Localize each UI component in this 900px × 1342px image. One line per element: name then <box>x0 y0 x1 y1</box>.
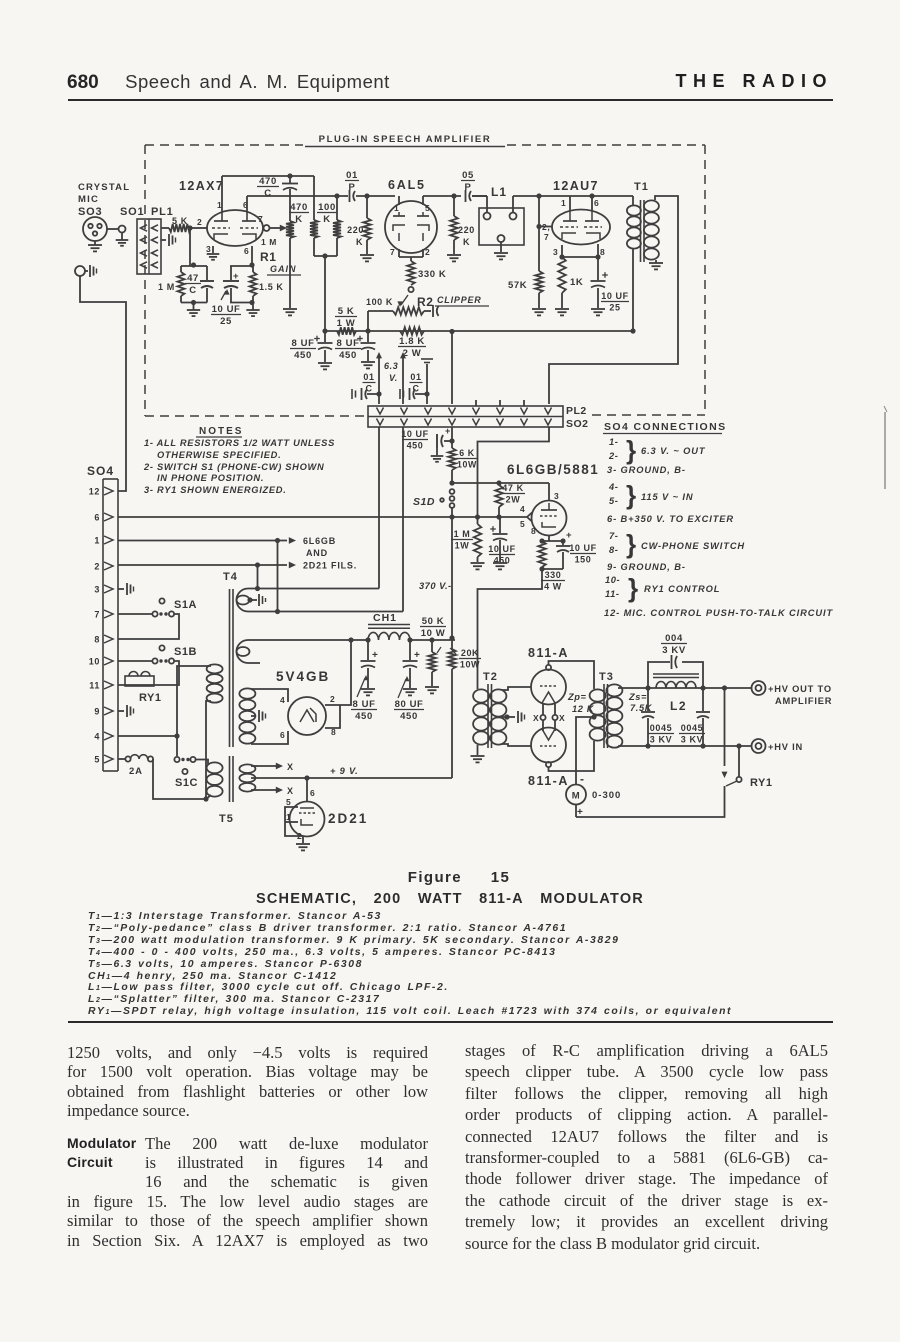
resistor 1M/1W grid <box>477 517 479 524</box>
wire 6L6 cathode <box>548 536 550 542</box>
svg-text:PL1: PL1 <box>151 206 174 218</box>
resistor 1K cathode <box>558 257 566 293</box>
bottom rail grid net <box>181 302 207 304</box>
wire T5 secondary X out top <box>251 765 258 767</box>
wire rail to strip <box>451 331 453 404</box>
rail2 wire <box>247 195 345 197</box>
svg-text:0045: 0045 <box>650 723 672 733</box>
svg-text:25: 25 <box>609 303 620 313</box>
svg-text:K: K <box>323 214 330 225</box>
strip pin 1 arrows <box>377 408 384 415</box>
stray mark <box>884 412 886 489</box>
svg-text:2W: 2W <box>506 495 521 505</box>
wire 5K to 12AX7 pin2 <box>191 227 207 229</box>
wire 811 upper plate to T3 <box>549 661 595 689</box>
svg-text:L2: L2 <box>670 699 687 713</box>
svg-text:CH1: CH1 <box>373 612 397 624</box>
ground (10uF/25) <box>591 308 605 310</box>
tube 6L6 <box>532 501 567 536</box>
svg-text:330: 330 <box>545 570 562 580</box>
svg-text:80 UF: 80 UF <box>395 699 424 710</box>
svg-text:10 UF: 10 UF <box>212 304 241 315</box>
wire 5V4GB cathode out <box>325 640 351 705</box>
svg-text:01: 01 <box>363 372 374 382</box>
resistor 6K/10W <box>448 448 456 470</box>
wire pin4 115V <box>118 735 177 737</box>
T4 heater winding A <box>237 589 404 612</box>
wire pin10 <box>118 660 153 662</box>
svg-text:-: - <box>580 772 585 786</box>
wire pin7 <box>118 613 153 615</box>
svg-text:6: 6 <box>594 198 599 208</box>
wire 6AL5 cathodes join <box>398 249 400 257</box>
svg-text:X: X <box>287 762 294 772</box>
T4 primary winding <box>207 664 223 673</box>
svg-text:1 M: 1 M <box>158 282 175 292</box>
ground (80uF filter) <box>403 688 417 690</box>
svg-text:10W: 10W <box>460 660 480 670</box>
svg-text:150: 150 <box>575 555 592 565</box>
svg-text:9: 9 <box>94 707 100 717</box>
svg-text:X: X <box>287 786 294 796</box>
svg-text:RY1: RY1 <box>139 692 162 704</box>
svg-text:SO3: SO3 <box>78 206 102 218</box>
wire T5 secondary X out bottom <box>251 789 258 791</box>
ground (T1 secondary) <box>655 260 657 263</box>
resistor 20K/10W <box>451 638 453 649</box>
svg-text:3 KV: 3 KV <box>650 735 672 745</box>
svg-text:11-: 11- <box>605 589 620 599</box>
svg-text:450: 450 <box>355 711 373 722</box>
svg-text:01: 01 <box>346 170 358 181</box>
svg-text:2-: 2- <box>608 451 618 461</box>
svg-text:L1: L1 <box>491 185 507 199</box>
svg-text:8: 8 <box>94 635 100 645</box>
wire T1 primary top <box>632 196 634 205</box>
wire cathode bottom <box>541 567 543 569</box>
wire pin6 to rail2 <box>246 196 248 212</box>
svg-text:01: 01 <box>410 372 421 382</box>
capacitor 10uF/450 grid <box>499 517 501 533</box>
svg-text:10 UF: 10 UF <box>401 429 429 439</box>
ground (8uF first) <box>318 362 332 364</box>
svg-text:SO2: SO2 <box>566 418 589 430</box>
svg-text:T1: T1 <box>634 181 649 193</box>
wire PL1 to 5K <box>161 227 169 229</box>
wire 20K down to +9V line <box>451 669 453 778</box>
svg-text:4 W: 4 W <box>544 582 562 592</box>
svg-text:8-: 8- <box>609 545 618 555</box>
wire strip to 10uF/6K branch <box>451 427 453 448</box>
filament riser 2 <box>400 352 406 358</box>
ground (10uF grid) <box>493 562 507 564</box>
bottom rail cathode <box>230 302 253 304</box>
svg-text:6: 6 <box>310 788 315 798</box>
switch S1D <box>451 470 453 483</box>
wire 6AL5 pin5 to .05 cap <box>422 196 424 205</box>
svg-text:450: 450 <box>339 350 357 361</box>
svg-text:M: M <box>572 791 581 802</box>
small gnd above riser 3 <box>421 358 433 360</box>
svg-text:450: 450 <box>400 711 418 722</box>
chassis cap on PL1 row2 <box>161 239 166 241</box>
wire 6AL5 pin1 <box>398 196 400 205</box>
strip pin 8 arrows <box>545 408 552 415</box>
wire 12AU7 cathodes <box>561 245 563 257</box>
ground (220K) <box>360 254 374 256</box>
wire fil drop B <box>277 541 279 612</box>
svg-text:6: 6 <box>94 513 100 523</box>
wire mic to SO1 <box>107 228 119 230</box>
svg-text:K: K <box>356 237 363 247</box>
svg-text:CRYSTAL: CRYSTAL <box>78 182 130 193</box>
relay RY1 coil <box>125 676 154 686</box>
page header <box>67 71 833 95</box>
svg-text:220: 220 <box>458 225 475 235</box>
svg-text:47 K: 47 K <box>502 483 523 493</box>
svg-text:20K: 20K <box>461 648 479 658</box>
ground (L1) <box>500 242 502 252</box>
svg-text:9- GROUND, B-: 9- GROUND, B- <box>607 562 686 572</box>
svg-text:1: 1 <box>561 198 566 208</box>
svg-text:K: K <box>295 214 302 225</box>
svg-text:2: 2 <box>197 217 202 227</box>
strip pin 5 arrows <box>473 408 480 415</box>
switch S1B <box>152 658 157 663</box>
svg-text:C: C <box>189 285 196 296</box>
svg-text:T5: T5 <box>219 813 234 825</box>
svg-text:2D21 FILS.: 2D21 FILS. <box>303 561 357 571</box>
svg-text:+: + <box>233 271 239 282</box>
resistor 5K grid stopper <box>169 224 191 232</box>
svg-text:470: 470 <box>259 176 277 187</box>
wire 6L6 grid stubs <box>527 513 532 518</box>
svg-text:7: 7 <box>94 610 100 620</box>
svg-text:SO4: SO4 <box>87 464 114 478</box>
svg-text:100: 100 <box>318 202 336 213</box>
svg-text:3: 3 <box>554 491 559 501</box>
svg-text:5: 5 <box>286 797 291 807</box>
resistor 57K grid leak <box>538 227 540 272</box>
svg-text:12- MIC. CONTROL PUSH-TO-TALK: 12- MIC. CONTROL PUSH-TO-TALK CIRCUIT <box>604 608 833 618</box>
ground (SO1) <box>116 239 129 241</box>
wire S1A to pin8 <box>118 614 179 639</box>
svg-text:1K: 1K <box>570 277 583 288</box>
wire T3 secondary bottom HV in line <box>618 745 752 747</box>
svg-text:X: X <box>533 713 539 723</box>
potentiometer R1 1M gain <box>264 225 270 231</box>
wire 811 lower plate to T3 <box>549 741 595 771</box>
svg-text:3- GROUND, B-: 3- GROUND, B- <box>607 465 686 475</box>
wire winding C to 5V4GB plates <box>251 689 288 702</box>
wire pin4 to S1C <box>176 736 178 756</box>
wire into L1 <box>486 196 488 213</box>
svg-text:2- SWITCH S1 (PHONE-CW) SHOWN: 2- SWITCH S1 (PHONE-CW) SHOWN <box>143 462 324 472</box>
svg-text:}: } <box>626 435 637 465</box>
svg-text:1-: 1- <box>609 437 618 447</box>
terminal HV out <box>752 681 766 695</box>
rule under component list <box>68 1021 833 1023</box>
svg-text:5 K: 5 K <box>338 306 355 317</box>
svg-text:7: 7 <box>390 247 395 257</box>
switch S1C <box>174 757 179 762</box>
resistor 330/4W cathode <box>538 541 546 567</box>
svg-text:450: 450 <box>407 441 424 451</box>
wire 2D21 grid/cath left <box>285 807 303 836</box>
relay RY1 contacts <box>724 688 726 766</box>
svg-text:S1C: S1C <box>175 777 198 789</box>
wire T3 meter tap <box>576 717 594 784</box>
svg-text:AND: AND <box>306 548 328 558</box>
wire 2D21 pin2 ground <box>302 836 304 843</box>
chassis cap pin9 <box>118 710 124 712</box>
svg-text:5V4GB: 5V4GB <box>276 669 330 684</box>
svg-text:+: + <box>577 807 583 818</box>
resistor 1.5K cathode <box>252 266 254 272</box>
header rule <box>68 99 833 101</box>
svg-text:PL2: PL2 <box>566 405 587 417</box>
svg-text:3: 3 <box>553 247 558 257</box>
wire SO2 down to plate line <box>478 427 550 517</box>
body text left column <box>67 1043 428 1250</box>
svg-text:6- B+350 V. TO EXCITER: 6- B+350 V. TO EXCITER <box>607 514 734 524</box>
svg-text:V.: V. <box>389 373 398 383</box>
wire cathode to T2 <box>478 569 543 689</box>
svg-text:6.3: 6.3 <box>384 361 398 371</box>
svg-text:57K: 57K <box>508 280 527 291</box>
svg-text:SO4 CONNECTIONS: SO4 CONNECTIONS <box>604 421 727 433</box>
wire return up to T4 primary <box>206 701 210 799</box>
svg-text:25: 25 <box>220 316 232 327</box>
svg-text:370 V.-: 370 V.- <box>419 581 452 591</box>
wire S1B to pin11 <box>118 661 179 685</box>
svg-text:8: 8 <box>531 526 536 536</box>
terminal HV in <box>752 739 766 753</box>
svg-text:8 UF: 8 UF <box>353 699 376 710</box>
ground (R1) <box>283 308 297 310</box>
svg-text:0-300: 0-300 <box>592 790 621 801</box>
svg-text:7: 7 <box>544 232 549 242</box>
chassis cap T4 winding C <box>251 715 256 717</box>
svg-text:8 UF: 8 UF <box>337 338 360 349</box>
capacitor .0045/3KV right <box>702 688 704 711</box>
SO1 contact <box>119 226 126 233</box>
svg-text:3 KV: 3 KV <box>681 735 703 745</box>
switch S1A <box>152 611 157 616</box>
figure caption <box>18 869 900 886</box>
wire T5 center tap +9V line <box>251 777 452 779</box>
svg-text:X: X <box>559 713 565 723</box>
svg-text:05: 05 <box>462 170 474 181</box>
svg-text:47: 47 <box>187 273 199 284</box>
B+ rail after choke <box>410 639 455 641</box>
svg-text:3: 3 <box>206 244 211 254</box>
ground (grid net) <box>193 303 195 311</box>
svg-text:4-: 4- <box>608 482 618 492</box>
PL1 pin arrows <box>141 237 148 243</box>
svg-text:S1A: S1A <box>174 599 197 611</box>
T4 HV winding C <box>239 688 255 698</box>
wire SO4 pin2 6.3V <box>118 564 287 566</box>
svg-text:10W: 10W <box>457 459 477 469</box>
svg-text:12AX7: 12AX7 <box>179 179 224 193</box>
wire SO4 pin1 6.3V <box>118 540 287 542</box>
ground (10uF strip) <box>436 448 438 455</box>
svg-text:NOTES: NOTES <box>199 426 243 437</box>
svg-text:5: 5 <box>520 519 525 529</box>
svg-text:6L6GB/5881: 6L6GB/5881 <box>507 462 599 477</box>
svg-text:811-A: 811-A <box>528 774 569 788</box>
svg-text:5: 5 <box>425 203 430 213</box>
svg-text:4: 4 <box>520 504 525 514</box>
svg-text:10 UF: 10 UF <box>488 544 516 554</box>
PL1 pin arrows <box>141 225 148 231</box>
wire grid to RC net <box>189 228 191 266</box>
svg-text:Zs=: Zs= <box>628 692 647 702</box>
svg-text:2: 2 <box>330 694 335 704</box>
svg-text:2: 2 <box>425 247 430 257</box>
T4 winding B 5V <box>237 640 369 663</box>
strip pin 3 arrows <box>425 408 432 415</box>
svg-text:+HV IN: +HV IN <box>768 742 803 752</box>
svg-text:12AU7: 12AU7 <box>553 179 599 193</box>
svg-text:8 UF: 8 UF <box>292 338 315 349</box>
ground (57K) <box>532 308 546 310</box>
filament riser 1 <box>376 352 382 358</box>
ground (8uF filter) <box>361 688 375 690</box>
svg-text:6 K: 6 K <box>459 448 475 458</box>
PL1 pin arrows <box>141 250 148 256</box>
svg-text:50 K: 50 K <box>422 616 444 627</box>
svg-text:6AL5: 6AL5 <box>388 178 426 192</box>
svg-text:1: 1 <box>94 536 100 546</box>
body text right column <box>465 1040 828 1254</box>
wire strip to T4 heater B <box>402 427 404 612</box>
resistor 47K/2W <box>498 483 500 485</box>
B decoupling rail <box>325 330 633 332</box>
svg-text:10 W: 10 W <box>421 628 446 639</box>
strip pin 4 arrows <box>449 408 456 415</box>
ground (mic) <box>88 244 102 246</box>
svg-text:6L6GB: 6L6GB <box>303 536 336 546</box>
svg-text:10 UF: 10 UF <box>601 291 629 301</box>
wire fuse around to T4/T5 return <box>153 759 206 799</box>
wire fil drop A <box>257 565 259 589</box>
ground (T2 primary) <box>477 745 479 755</box>
wire T3 secondary top HV out line <box>618 687 752 689</box>
svg-text:7: 7 <box>258 214 263 224</box>
ground (220K second) <box>447 254 461 256</box>
svg-text:S1B: S1B <box>174 646 197 658</box>
svg-text:3: 3 <box>94 585 100 595</box>
svg-text:450: 450 <box>294 350 312 361</box>
svg-text:T2: T2 <box>483 671 498 683</box>
svg-text:MIC: MIC <box>78 194 99 205</box>
svg-text:1: 1 <box>286 812 291 822</box>
svg-text:5: 5 <box>94 755 100 765</box>
svg-text:6: 6 <box>244 246 249 256</box>
svg-text:6: 6 <box>280 730 285 740</box>
svg-text:+HV OUT TO: +HV OUT TO <box>768 684 832 694</box>
ground (2D21) <box>296 843 310 845</box>
svg-text:}: } <box>626 529 637 559</box>
svg-text:IN PHONE POSITION.: IN PHONE POSITION. <box>157 473 264 483</box>
top rail <box>222 175 314 177</box>
svg-text:11: 11 <box>89 681 100 691</box>
capacitor 10uF/25 cathode <box>230 265 253 267</box>
wire join 470K/100K bottoms <box>314 255 337 257</box>
wire T5 primary bottom <box>206 795 211 799</box>
wire jack to SO4 pin 12 <box>80 276 126 491</box>
ground (50K) <box>425 686 439 688</box>
svg-text:OTHERWISE SPECIFIED.: OTHERWISE SPECIFIED. <box>157 450 281 460</box>
plug-in speech amplifier enclosure (dashed box) <box>145 144 303 146</box>
meter M 0-300 <box>566 785 586 805</box>
svg-text:115 V ~ IN: 115 V ~ IN <box>641 492 694 502</box>
svg-text:GAIN: GAIN <box>270 264 297 274</box>
ground (cathode net) <box>252 303 254 311</box>
svg-text:004: 004 <box>665 633 683 644</box>
svg-text:RY1: RY1 <box>750 777 773 789</box>
svg-text:C: C <box>365 384 372 394</box>
capacitor .0045/3KV left <box>647 688 649 711</box>
filter coil L2 <box>653 673 699 675</box>
capacitor 10uF/25 second <box>597 257 599 280</box>
wire T2 sec bottom to 811 grid <box>502 744 531 746</box>
wire T2 sec top to 811 grid <box>502 687 531 690</box>
svg-text:RY1 CONTROL: RY1 CONTROL <box>644 584 720 594</box>
capacitor clipper out <box>432 305 434 317</box>
svg-text:811-A: 811-A <box>528 646 569 660</box>
svg-text:+ 9 V.: + 9 V. <box>330 766 359 776</box>
plate line 6L6 <box>452 482 549 484</box>
svg-text:3 KV: 3 KV <box>662 645 686 656</box>
svg-text:100 K: 100 K <box>366 297 393 307</box>
wire T1 primary bottom to B rail <box>632 249 634 331</box>
svg-text:+: + <box>414 650 420 661</box>
svg-text:S1D: S1D <box>413 496 435 508</box>
svg-text:}: } <box>628 573 639 603</box>
svg-text:C: C <box>264 188 271 199</box>
ground (8uF second) <box>361 361 375 363</box>
ground (12AX7 pin3) <box>212 246 214 253</box>
tube 811-A upper <box>531 670 566 705</box>
svg-text:AMPLIFIER: AMPLIFIER <box>775 696 832 706</box>
svg-text:8: 8 <box>600 247 605 257</box>
wire 12AU7 plates to T1 <box>569 196 571 210</box>
strip pin 7 arrows <box>521 408 528 415</box>
fuse 2A <box>118 758 126 760</box>
wire pin8 to cathode net <box>251 246 253 266</box>
wire L1 out to 12AU7 <box>512 196 514 213</box>
svg-text:5 K: 5 K <box>172 216 188 226</box>
svg-text:470: 470 <box>290 202 308 213</box>
svg-text:4: 4 <box>94 732 100 742</box>
svg-text:1.5 K: 1.5 K <box>259 282 284 292</box>
connector strip PL2/SO2 <box>368 406 563 427</box>
wire S1C to T5 <box>196 760 209 765</box>
svg-text:T3: T3 <box>599 671 614 683</box>
svg-text:K: K <box>463 237 470 247</box>
wire SO4 pin6 B+350 line <box>118 516 527 518</box>
chassis cap pin3 <box>118 588 124 590</box>
svg-text:}: } <box>626 480 637 510</box>
svg-text:4: 4 <box>280 695 285 705</box>
PL1 pin arrows <box>141 262 148 268</box>
wire strip to T4 heater A <box>378 427 380 589</box>
svg-text:3- RY1 SHOWN ENERGIZED.: 3- RY1 SHOWN ENERGIZED. <box>144 485 287 495</box>
svg-text:10-: 10- <box>605 575 620 585</box>
